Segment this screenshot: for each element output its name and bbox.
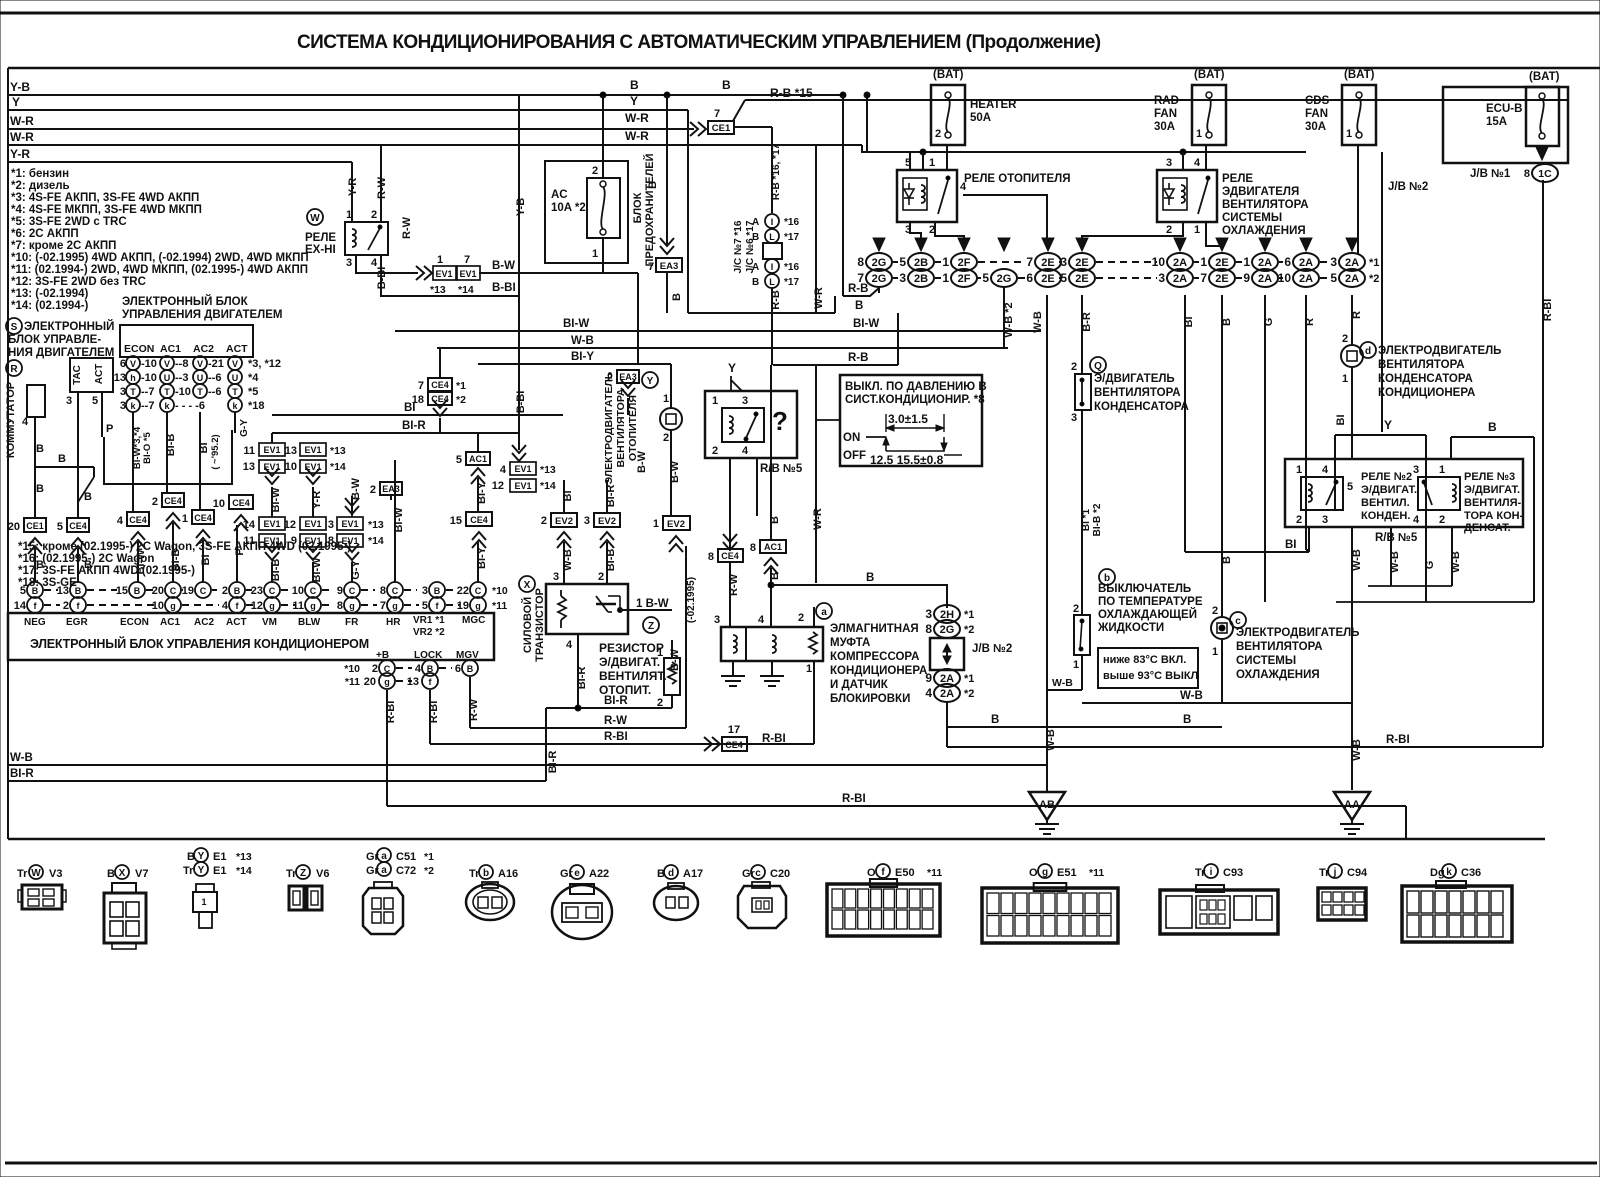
svg-text:B-W: B-W xyxy=(669,460,681,483)
svg-text:1: 1 xyxy=(806,663,812,675)
svg-text:CE4: CE4 xyxy=(725,740,743,750)
svg-text:X: X xyxy=(119,868,126,879)
svg-text:W-B: W-B xyxy=(1389,551,1401,573)
svg-text:5: 5 xyxy=(92,395,98,407)
svg-text:Y: Y xyxy=(1384,418,1392,432)
svg-text:*3, *12: *3, *12 xyxy=(248,358,281,370)
svg-text:A22: A22 xyxy=(589,868,609,880)
svg-text:РЕЛЕ ОТОПИТЕЛЯ: РЕЛЕ ОТОПИТЕЛЯ xyxy=(964,173,1070,185)
svg-text:23: 23 xyxy=(251,585,263,597)
svg-text:13: 13 xyxy=(407,676,419,688)
wire HR col xyxy=(394,460,396,582)
svg-text:Y: Y xyxy=(12,95,20,109)
connector EV1 EV1 xyxy=(416,266,432,280)
connector CE4-1 xyxy=(192,510,214,524)
wire BI-R horiz xyxy=(546,707,672,709)
svg-text:Э/ДВИГАТЕЛЬ: Э/ДВИГАТЕЛЬ xyxy=(1094,373,1175,385)
svg-text:B: B xyxy=(434,586,441,596)
svg-text:VR2 *2: VR2 *2 xyxy=(413,627,445,638)
svg-text:BI-W: BI-W xyxy=(311,557,323,583)
wire BI-W xyxy=(395,330,1041,332)
svg-text:Tr: Tr xyxy=(183,865,194,877)
wire R-B mid xyxy=(687,363,689,365)
svg-text:8: 8 xyxy=(328,535,334,547)
connector CE4-17 xyxy=(704,737,720,751)
svg-text:2: 2 xyxy=(372,663,378,675)
svg-text:R-W: R-W xyxy=(468,698,480,721)
svg-text:AC: AC xyxy=(551,189,568,201)
svg-text:14: 14 xyxy=(243,519,256,531)
connector EA3-2b xyxy=(617,370,639,383)
svg-text:CE4: CE4 xyxy=(232,498,250,508)
svg-text:*11: (02.1994-) 2WD, 4WD МКПП,: *11: (02.1994-) 2WD, 4WD МКПП, (02.1995-… xyxy=(11,264,308,276)
svg-text:AC2: AC2 xyxy=(193,343,214,355)
svg-text:7: 7 xyxy=(857,271,864,285)
svg-text:7: 7 xyxy=(1200,271,1207,285)
svg-text:V: V xyxy=(130,359,136,369)
svg-text:2E: 2E xyxy=(1215,257,1228,269)
svg-text:7: 7 xyxy=(714,108,720,120)
junction block J/B No2 xyxy=(934,605,960,623)
connector CE1-7 xyxy=(690,122,706,136)
svg-text:AC2: AC2 xyxy=(194,617,214,628)
wire relay cooling pins xyxy=(1182,152,1184,170)
wire Y bus xyxy=(8,109,688,111)
svg-text:Y-B: Y-B xyxy=(10,80,30,94)
connector CE4-2 xyxy=(162,493,184,507)
svg-text:BI-B: BI-B xyxy=(170,549,182,572)
svg-text:БЛОК: БЛОК xyxy=(632,192,644,223)
svg-text:*10: (-02.1995) 4WD АКПП, (-02: *10: (-02.1995) 4WD АКПП, (-02.1994) 2WD… xyxy=(11,252,309,264)
svg-text:2A: 2A xyxy=(940,688,954,700)
svg-text:B-BI: B-BI xyxy=(376,267,388,290)
fuse CDS FAN 30A xyxy=(1342,85,1376,145)
svg-text:(BAT): (BAT) xyxy=(1344,69,1375,81)
svg-text:ACT: ACT xyxy=(94,364,105,385)
svg-text:ВЫКЛ. ПО ДАВЛЕНИЮ В: ВЫКЛ. ПО ДАВЛЕНИЮ В xyxy=(845,381,987,393)
svg-text:2: 2 xyxy=(1342,333,1348,345)
relay cooling fan xyxy=(1157,170,1217,222)
svg-text:BI-R: BI-R xyxy=(604,695,628,707)
svg-text:AC1: AC1 xyxy=(160,617,180,628)
svg-text:4: 4 xyxy=(117,515,124,527)
wire B route xyxy=(1451,436,1534,438)
svg-text:1: 1 xyxy=(437,254,443,266)
wire W-B top xyxy=(436,348,438,350)
svg-text:BI: BI xyxy=(1285,539,1297,551)
svg-text:EV2: EV2 xyxy=(555,516,573,527)
svg-text:*14: *14 xyxy=(458,284,474,296)
svg-text:22: 22 xyxy=(457,585,469,597)
svg-text:3: 3 xyxy=(120,386,126,398)
svg-text:B-BI: B-BI xyxy=(515,391,527,414)
svg-text:BI *1: BI *1 xyxy=(1081,508,1092,531)
svg-text:1: 1 xyxy=(712,395,718,407)
svg-text:BI-W: BI-W xyxy=(853,318,879,330)
connector CE4-10 xyxy=(229,495,253,509)
svg-text:BI-O *5: BI-O *5 xyxy=(142,431,153,463)
svg-text:10: 10 xyxy=(213,498,225,510)
connector CE4-4 xyxy=(127,512,149,526)
connector EA3-7 xyxy=(660,238,674,254)
svg-text:EV2: EV2 xyxy=(598,516,616,527)
svg-text:30A: 30A xyxy=(1305,121,1326,133)
fuse block box xyxy=(545,161,628,263)
svg-text:B: B xyxy=(1488,420,1497,434)
svg-text:B: B xyxy=(234,586,241,596)
svg-text:ВЕНТИЛЯТОРА: ВЕНТИЛЯТОРА xyxy=(1094,387,1181,399)
svg-text:2: 2 xyxy=(663,432,669,444)
svg-text:ОХЛАЖДАЮЩЕЙ: ОХЛАЖДАЮЩЕЙ xyxy=(1098,608,1197,621)
svg-text:BI-Y: BI-Y xyxy=(571,351,594,363)
svg-text:R-W: R-W xyxy=(376,176,388,199)
svg-text:2A: 2A xyxy=(1299,257,1313,269)
svg-text:Q: Q xyxy=(1094,361,1102,372)
wire W-B horizontal xyxy=(1082,702,1352,704)
svg-text:*12: 3S-FE 2WD без TRC: *12: 3S-FE 2WD без TRC xyxy=(11,276,146,288)
svg-text:BI-W: BI-W xyxy=(563,318,589,330)
svg-text:1C: 1C xyxy=(1538,168,1552,180)
wire W-R bus 2 xyxy=(8,144,862,146)
wire R vertical xyxy=(1305,295,1307,550)
svg-text:EA3: EA3 xyxy=(382,484,400,494)
svg-text:5: 5 xyxy=(899,255,906,269)
svg-text:B: B xyxy=(32,586,39,596)
svg-text:ЖИДКОСТИ: ЖИДКОСТИ xyxy=(1097,622,1164,634)
wire B to J/B2 xyxy=(771,585,947,608)
wire B-W to EV1 xyxy=(351,496,353,517)
ground AA xyxy=(1334,792,1370,820)
wire grid col4 xyxy=(234,412,236,433)
svg-text:КОНДЕН.: КОНДЕН. xyxy=(1361,510,1410,522)
svg-text:11: 11 xyxy=(243,535,255,547)
svg-text:B: B xyxy=(722,78,731,92)
svg-text:R-BI: R-BI xyxy=(428,701,440,724)
svg-text:CE4: CE4 xyxy=(470,515,488,525)
svg-text:Y: Y xyxy=(630,94,638,108)
svg-text:BLW: BLW xyxy=(298,617,321,628)
wire BI-R left long xyxy=(8,780,546,782)
svg-text:W-B: W-B xyxy=(1450,551,1462,573)
svg-text:РЕЛЕ: РЕЛЕ xyxy=(305,232,336,244)
svg-text:6: 6 xyxy=(1026,271,1033,285)
relay heater xyxy=(897,170,957,222)
wire B vertical to EA3 xyxy=(666,95,668,246)
svg-text:R-B *16, *17: R-B *16, *17 xyxy=(771,143,782,200)
svg-text:R-BI: R-BI xyxy=(385,701,397,724)
svg-text:B: B xyxy=(769,516,781,524)
svg-text:15: 15 xyxy=(450,515,462,527)
svg-text:FR: FR xyxy=(345,617,359,628)
svg-text:g: g xyxy=(475,601,481,611)
svg-text:4: 4 xyxy=(1194,157,1201,169)
svg-text:AC1: AC1 xyxy=(764,542,782,552)
svg-text:g: g xyxy=(384,677,390,687)
svg-text:W-R: W-R xyxy=(812,508,824,530)
svg-text:2: 2 xyxy=(1073,603,1079,615)
svg-text:*13: *13 xyxy=(430,284,446,296)
wire W-B left long xyxy=(8,764,1047,766)
svg-text:1: 1 xyxy=(942,255,949,269)
svg-text:CE1: CE1 xyxy=(26,521,44,531)
svg-text:Y: Y xyxy=(198,865,205,876)
svg-text:--7: --7 xyxy=(141,386,154,398)
svg-text:2E: 2E xyxy=(1075,273,1088,285)
svg-text:BI-Y: BI-Y xyxy=(476,546,488,569)
svg-text:R: R xyxy=(1351,311,1363,319)
svg-text:4: 4 xyxy=(500,464,507,476)
svg-text:NEG: NEG xyxy=(24,617,46,628)
svg-text:УПРАВЛЕНИЯ ДВИГАТЕЛЕМ: УПРАВЛЕНИЯ ДВИГАТЕЛЕМ xyxy=(122,309,282,321)
svg-text:G: G xyxy=(1424,561,1436,570)
connector EV2-3 xyxy=(594,513,620,527)
wire W-R vertical mid xyxy=(815,145,817,313)
svg-text:BI-B: BI-B xyxy=(165,434,177,457)
svg-text:Y-B: Y-B xyxy=(515,198,527,216)
coolant temp switch xyxy=(1081,410,1083,615)
svg-text:3: 3 xyxy=(422,585,428,597)
wire R-B below J/C xyxy=(771,288,773,365)
svg-text:ЭДВИГАТЕЛЯ: ЭДВИГАТЕЛЯ xyxy=(1222,186,1299,198)
svg-text:B: B xyxy=(752,277,759,288)
wire R-B xyxy=(843,288,879,296)
svg-text:СИСТЕМА КОНДИЦИОНИРОВАНИЯ С АВ: СИСТЕМА КОНДИЦИОНИРОВАНИЯ С АВТОМАТИЧЕСК… xyxy=(297,32,1101,53)
svg-text:6: 6 xyxy=(455,663,461,675)
wire B vertical right of box xyxy=(815,366,817,583)
svg-text:g: g xyxy=(349,601,355,611)
wire B bus left xyxy=(34,417,36,518)
svg-text:2: 2 xyxy=(598,571,604,583)
svg-text:ВЕНТИЛЯТ.: ВЕНТИЛЯТ. xyxy=(599,669,667,683)
svg-text:7: 7 xyxy=(418,380,424,392)
svg-text:ACT: ACT xyxy=(226,617,247,628)
pressure switch box xyxy=(840,375,982,466)
svg-text:OFF: OFF xyxy=(843,450,866,462)
svg-text:BI-W: BI-W xyxy=(393,507,405,533)
svg-text:4: 4 xyxy=(758,614,765,626)
svg-text:R-BI: R-BI xyxy=(604,731,628,743)
relay EX-HI xyxy=(307,209,323,225)
svg-text:B: B xyxy=(467,664,474,674)
svg-text:9: 9 xyxy=(925,671,932,685)
svg-text:8: 8 xyxy=(1524,168,1530,180)
svg-text:ЭЛЕКТРОДВИГАТЕЛЬ: ЭЛЕКТРОДВИГАТЕЛЬ xyxy=(1378,345,1501,357)
svg-text:5: 5 xyxy=(982,271,989,285)
svg-text:12.5 15.5±0.8: 12.5 15.5±0.8 xyxy=(870,453,944,467)
svg-text:EV1: EV1 xyxy=(435,269,452,279)
wire R-B *16 *17 vertical xyxy=(771,127,773,213)
svg-text:P: P xyxy=(234,548,246,555)
svg-text:СИСТЕМЫ: СИСТЕМЫ xyxy=(1236,655,1296,667)
svg-text:2G: 2G xyxy=(872,257,887,269)
svg-text:W-R: W-R xyxy=(10,114,34,128)
wire heater bus xyxy=(867,151,1306,153)
svg-text:BI: BI xyxy=(1335,415,1347,426)
svg-text:ВЕНТИЛЯТОРА: ВЕНТИЛЯТОРА xyxy=(615,388,627,467)
svg-text:V: V xyxy=(164,359,170,369)
svg-text:3: 3 xyxy=(1166,157,1172,169)
wire BI-R xyxy=(272,432,520,434)
svg-text:13: 13 xyxy=(243,461,255,473)
svg-text:3: 3 xyxy=(346,257,352,269)
svg-text:CE4: CE4 xyxy=(164,496,182,506)
svg-text:3: 3 xyxy=(120,400,126,412)
svg-text:5: 5 xyxy=(422,600,428,612)
svg-text:L: L xyxy=(769,232,775,242)
svg-text:i: i xyxy=(1210,867,1213,878)
svg-text:3: 3 xyxy=(742,395,748,407)
svg-text:O: O xyxy=(1029,867,1038,879)
svg-text:CE4: CE4 xyxy=(721,551,739,561)
svg-text:ОХЛАЖДЕНИЯ: ОХЛАЖДЕНИЯ xyxy=(1236,669,1320,681)
svg-text:3: 3 xyxy=(1071,412,1077,424)
wire B-W fuse to EV1 xyxy=(479,272,638,274)
svg-text:AC1: AC1 xyxy=(160,343,181,355)
svg-text:R-B: R-B xyxy=(848,352,868,364)
svg-text:1 B-W: 1 B-W xyxy=(636,598,669,610)
svg-text:2: 2 xyxy=(798,612,804,624)
svg-text:8: 8 xyxy=(708,551,714,563)
svg-text:BI-B: BI-B xyxy=(605,549,617,572)
svg-text:*14: *14 xyxy=(368,535,384,547)
wire B xyxy=(688,312,835,314)
svg-text:--6: --6 xyxy=(208,386,221,398)
svg-text:3.0±1.5: 3.0±1.5 xyxy=(888,412,928,426)
svg-text:13: 13 xyxy=(285,445,297,457)
wire BI-R step xyxy=(545,708,547,781)
svg-text:17: 17 xyxy=(728,724,740,736)
svg-text:1: 1 xyxy=(1194,224,1200,236)
wire B-W out xyxy=(620,609,672,611)
svg-text:1: 1 xyxy=(1196,128,1202,140)
svg-text:*2: *2 xyxy=(1369,273,1379,285)
svg-text:B: B xyxy=(1183,714,1191,726)
svg-text:E51: E51 xyxy=(1057,867,1077,879)
svg-text:b: b xyxy=(483,868,489,879)
svg-text:7: 7 xyxy=(1026,255,1033,269)
svg-text:U: U xyxy=(197,373,204,383)
svg-text:A17: A17 xyxy=(683,868,703,880)
svg-text:a: a xyxy=(821,607,827,618)
svg-text:3: 3 xyxy=(553,571,559,583)
svg-text:Gr: Gr xyxy=(560,868,574,880)
svg-text:R-W: R-W xyxy=(401,216,413,239)
svg-text:ТРАНЗИСТОР: ТРАНЗИСТОР xyxy=(534,588,546,662)
svg-text:РЕЛЕ №2: РЕЛЕ №2 xyxy=(1361,471,1412,483)
connector EA3-2 xyxy=(380,482,402,495)
svg-text:C: C xyxy=(475,586,482,596)
svg-text:8: 8 xyxy=(337,600,343,612)
svg-text:5: 5 xyxy=(20,585,26,597)
svg-text:И ДАТЧИК: И ДАТЧИК xyxy=(830,679,889,691)
svg-text:2: 2 xyxy=(370,484,376,496)
svg-text:EV1: EV1 xyxy=(459,269,476,279)
svg-text:ЭЛЕКТРОННЫЙ БЛОК: ЭЛЕКТРОННЫЙ БЛОК xyxy=(122,295,249,308)
svg-text:7: 7 xyxy=(648,261,654,273)
svg-text:EGR: EGR xyxy=(66,617,88,628)
svg-text:(BAT): (BAT) xyxy=(1529,71,1560,83)
svg-text:*13: *13 xyxy=(330,445,346,457)
svg-text:-10: -10 xyxy=(175,386,191,398)
svg-text:*17: 3S-FE АКПП 4WD (02.1995-): *17: 3S-FE АКПП 4WD (02.1995-) xyxy=(18,565,195,577)
svg-text:КОНДИЦИОНЕРА: КОНДИЦИОНЕРА xyxy=(1378,387,1475,399)
svg-text:B-W: B-W xyxy=(350,477,362,500)
svg-text:Y: Y xyxy=(198,851,205,862)
wire clutch grounds xyxy=(732,661,734,676)
svg-text:R-BI: R-BI xyxy=(762,733,786,745)
svg-text:g: g xyxy=(1042,867,1048,878)
svg-text:Y: Y xyxy=(728,361,736,375)
svg-text:R-B: R-B xyxy=(770,290,782,310)
svg-text:R-BI: R-BI xyxy=(1542,299,1554,322)
svg-text:CDS: CDS xyxy=(1305,95,1330,107)
svg-text:AC1: AC1 xyxy=(469,454,487,464)
svg-text:*1: *1 xyxy=(964,609,974,621)
svg-text:RAD: RAD xyxy=(1154,95,1179,107)
relay No3 xyxy=(1418,477,1460,510)
svg-text:*4: 4S-FE МКПП, 3S-FE 4WD МКПП: *4: 4S-FE МКПП, 3S-FE 4WD МКПП xyxy=(11,204,202,216)
svg-text:*1: *1 xyxy=(456,380,466,392)
svg-text:3: 3 xyxy=(899,271,906,285)
svg-text:1: 1 xyxy=(1296,464,1302,476)
svg-text:1: 1 xyxy=(182,513,188,525)
svg-text:ВЫКЛЮЧАТЕЛЬ: ВЫКЛЮЧАТЕЛЬ xyxy=(1098,583,1191,595)
svg-text:1: 1 xyxy=(1212,646,1218,658)
svg-text:1: 1 xyxy=(1439,464,1445,476)
svg-text:КОНДИЦИОНЕРА: КОНДИЦИОНЕРА xyxy=(830,665,927,677)
svg-text:2: 2 xyxy=(1296,514,1302,526)
svg-text:CE4: CE4 xyxy=(129,515,147,525)
svg-text:FAN: FAN xyxy=(1154,108,1177,120)
svg-text:*17: *17 xyxy=(784,232,799,243)
svg-text:C: C xyxy=(170,586,177,596)
connector CE4-7-18 xyxy=(428,378,452,391)
wire fuse heater down xyxy=(946,145,948,170)
wire R-B *15 xyxy=(745,99,1568,101)
svg-text:B: B xyxy=(36,559,44,571)
svg-text:ОХЛАЖДЕНИЯ: ОХЛАЖДЕНИЯ xyxy=(1222,225,1306,237)
svg-text:--8: --8 xyxy=(175,358,188,370)
svg-text:EV1: EV1 xyxy=(514,481,531,491)
svg-text:EV1: EV1 xyxy=(341,519,358,529)
svg-text:13: 13 xyxy=(114,372,126,384)
connector AC1-5 xyxy=(466,452,490,465)
svg-text:*13: *13 xyxy=(540,464,556,476)
wire pin2 down xyxy=(729,458,731,550)
svg-text:EA3: EA3 xyxy=(660,261,678,272)
svg-text:*11: *11 xyxy=(492,600,507,612)
svg-text:2: 2 xyxy=(1166,224,1172,236)
svg-text:*13: *13 xyxy=(236,851,252,863)
svg-text:BI: BI xyxy=(200,555,212,566)
svg-text:КОНДЕНСАТОРА: КОНДЕНСАТОРА xyxy=(1378,373,1473,385)
svg-text:11: 11 xyxy=(243,445,255,457)
connector AC1-8 xyxy=(760,540,786,553)
svg-text:BI-W: BI-W xyxy=(270,487,282,513)
svg-text:c: c xyxy=(755,868,761,879)
wire grid col1 xyxy=(132,412,134,512)
svg-text:B: B xyxy=(75,586,82,596)
svg-text:5: 5 xyxy=(456,454,462,466)
svg-text:4: 4 xyxy=(925,686,932,700)
arrows above row xyxy=(873,238,885,251)
svg-text:3: 3 xyxy=(1322,514,1328,526)
svg-text:R: R xyxy=(10,364,18,375)
svg-text:--7: --7 xyxy=(141,400,154,412)
svg-text:B: B xyxy=(107,868,115,880)
wire Y vertical xyxy=(687,110,689,313)
wire temp switch down xyxy=(1081,655,1083,690)
